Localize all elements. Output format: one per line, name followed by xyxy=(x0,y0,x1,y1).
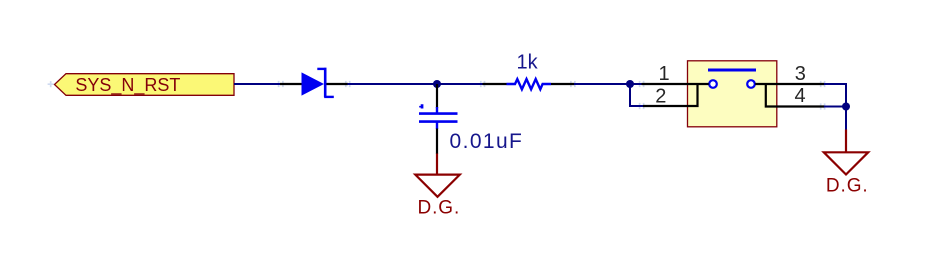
switch pin 4 xyxy=(766,85,825,107)
svg-text:1: 1 xyxy=(659,63,670,85)
wire resistor to switch junction xyxy=(574,83,642,85)
resistor 1k xyxy=(483,79,575,89)
switch body (4-pin pushbutton) xyxy=(688,61,777,127)
pin hotspot markers (pale crosses at connection points) xyxy=(48,81,828,110)
wire diode to resistor xyxy=(348,83,484,85)
wire pin 3 to ground xyxy=(824,84,846,130)
junction node pins 1-2 xyxy=(626,80,634,88)
wire pin 4 to junction xyxy=(824,106,846,108)
wire junction down to pin 2 xyxy=(630,84,643,106)
svg-text:D.G.: D.G. xyxy=(418,198,461,219)
svg-text:4: 4 xyxy=(795,85,806,107)
switch pin 2 xyxy=(643,85,698,106)
svg-text:2: 2 xyxy=(655,85,666,107)
svg-text:0.01uF: 0.01uF xyxy=(450,130,524,153)
junction node pins 3-4 xyxy=(842,103,850,111)
switch pin 3 xyxy=(755,83,824,85)
svg-text:3: 3 xyxy=(795,63,806,85)
ground D.G. left xyxy=(415,154,460,219)
switch pin 1 xyxy=(642,83,709,85)
ground D.G. right xyxy=(824,130,869,197)
svg-text:D.G.: D.G. xyxy=(826,176,869,197)
net label SYS_N_RST xyxy=(55,74,235,96)
wire label to diode xyxy=(234,83,281,85)
capacitor 0.01uF xyxy=(419,84,458,154)
junction node at capacitor xyxy=(433,80,441,88)
svg-text:1k: 1k xyxy=(517,52,539,74)
svg-text:SYS_N_RST: SYS_N_RST xyxy=(75,75,180,96)
diode (zener, no designator shown) xyxy=(280,68,348,97)
